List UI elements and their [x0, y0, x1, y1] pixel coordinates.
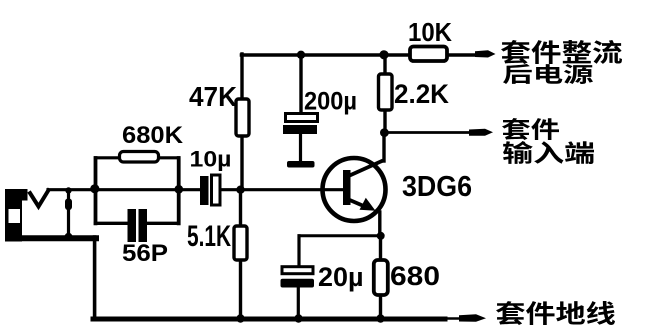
junction: loop right / signal [174, 185, 183, 194]
net label: kit input line1 (tao jian) [502, 118, 559, 140]
wire: input bottom return to ground [93, 237, 97, 319]
capacitor 200u positive plate (hollow) [286, 114, 318, 122]
junction: 2.2K top rail [379, 50, 388, 59]
wire: jack switch vertical [67, 191, 70, 237]
capacitor 10u negative plate (solid) [200, 176, 209, 205]
capacitor 56P right plate [139, 209, 148, 242]
jack switch blob [65, 199, 72, 211]
capacitor 200u negative plate (solid) [283, 125, 317, 134]
svg-text:200µ: 200µ [304, 88, 357, 116]
svg-text:2.2K: 2.2K [394, 79, 449, 109]
net label: kit rectified supply line2 (hou dian yuan) [503, 64, 593, 84]
wire: feedback loop bottom right segment from 56P [147, 222, 179, 225]
arrow to kit rectified supply [475, 50, 496, 57]
net label: kit input line2 (shu ru duan) [503, 141, 594, 164]
wire: feedback loop left vertical [94, 158, 98, 223]
wire: 200u lower stem [299, 134, 302, 161]
net label: kit ground (tao jian di xian) [496, 301, 615, 325]
resistor 680 body [374, 260, 388, 295]
wire: emitter lead [378, 212, 381, 236]
svg-text:5.1K: 5.1K [187, 220, 231, 253]
capacitor 56P left plate [128, 209, 137, 242]
wire: 20u lower stem [297, 287, 300, 318]
svg-text:10µ: 10µ [190, 147, 232, 172]
resistor 2.2K body [379, 74, 393, 110]
resistor 10K body [410, 47, 447, 62]
transistor Q1 3DG6 circle [323, 158, 386, 221]
wire: 5.1K vertical branch [239, 190, 242, 318]
junction: 200u top [297, 51, 305, 59]
resistor 680K body [120, 152, 159, 163]
capacitor 20u positive plate (hollow) [282, 267, 313, 274]
capacitor 200u bottom terminal bar [287, 161, 315, 168]
resistor 5.1K body [234, 226, 247, 260]
wire: main signal line from plug tip to 10u [48, 188, 200, 191]
junction: 680 ground [376, 314, 384, 322]
svg-text:47K: 47K [189, 81, 237, 112]
junction: base node (47K/5.1K/10u) [236, 186, 244, 194]
wire: top supply rail [242, 53, 479, 57]
arrow to kit input terminal [469, 129, 493, 136]
svg-text:20µ: 20µ [318, 262, 364, 292]
net label: kit rectified supply line1 (tao jian zheng liu) [501, 40, 622, 64]
junction: 20u ground [294, 314, 302, 322]
transistor collector stroke [349, 161, 384, 177]
svg-text:680: 680 [390, 261, 440, 291]
wire: 47K vertical branch [240, 54, 243, 188]
capacitor 20u negative plate (solid) [281, 279, 315, 288]
arrow to kit ground [459, 314, 486, 322]
wire: 20u upper stem [297, 236, 300, 267]
junction: jack switch bottom [65, 233, 73, 241]
transistor base bar [343, 170, 351, 205]
junction: emitter node [377, 232, 385, 240]
wire: 2.2K vertical branch [383, 55, 386, 134]
wire: jack sleeve bottom line [21, 235, 96, 241]
junction: jack switch top [65, 187, 71, 193]
junction: collector / input branch [380, 128, 389, 137]
junction: loop left / signal [90, 184, 99, 193]
capacitor 10u positive plate (hollow) [212, 175, 221, 205]
wire: feedback loop top (680K) [96, 156, 179, 159]
wire: 680 emitter resistor branch [379, 236, 382, 318]
svg-text:680K: 680K [122, 122, 184, 149]
svg-text:10K: 10K [408, 17, 452, 47]
wire: 200u upper stem [299, 55, 302, 114]
junction: 5.1K ground [236, 314, 244, 322]
svg-text:3DG6: 3DG6 [402, 171, 472, 203]
transistor emitter stroke with arrow [349, 200, 363, 206]
wire: feedback loop right vertical [177, 158, 181, 223]
jack plug body [5, 189, 22, 242]
wire: feedback loop bottom left segment to 56P [96, 222, 129, 225]
wire: collector lead [382, 133, 385, 162]
jack plug tip V [29, 189, 50, 207]
wire: ground rail thin extension to arrow [445, 317, 460, 320]
wire: kit-input arrow branch [385, 131, 471, 134]
wire: signal line 10u to base [220, 188, 344, 191]
wire: ground rail [93, 317, 445, 322]
wire: emitter bypass horizontal [299, 234, 381, 237]
resistor 47K body [236, 99, 249, 136]
svg-text:56P: 56P [122, 240, 168, 267]
